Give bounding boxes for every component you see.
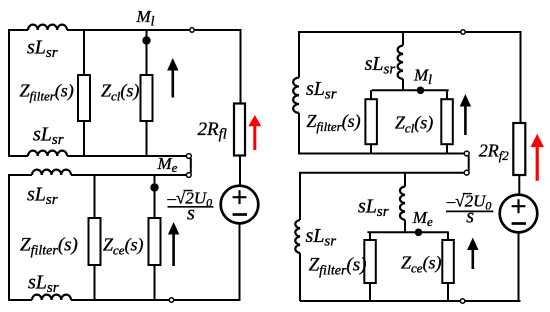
inductor sLsr bottom-right (left rail, vertical) bbox=[295, 220, 300, 253]
wire source right to bottom rail bbox=[518, 232, 520, 301]
svg-text:sLsr: sLsr bbox=[306, 225, 337, 250]
svg-text:Zfilter(s): Zfilter(s) bbox=[20, 235, 78, 259]
wire left rail of bottom-right circuit bbox=[299, 172, 301, 301]
wire 2Rf2 to source right bbox=[518, 175, 520, 195]
current arrow (red) 2Rf2 bbox=[531, 134, 544, 181]
wire bottom rail of top-left circuit bbox=[9, 155, 187, 157]
wire link between terminals (left) bbox=[190, 158, 192, 173]
inductor sLsr bottom-left (series, bottom rail) bbox=[32, 295, 71, 300]
node M_e (bottom-right junction dot) bbox=[415, 229, 423, 237]
wire right rail top-left to 2Rf1 bbox=[240, 29, 242, 104]
resistor 2Rf2 bbox=[513, 123, 525, 175]
inductor sLsr top-left (series, top rail) bbox=[28, 25, 67, 30]
svg-text:2Rfl: 2Rfl bbox=[198, 119, 227, 143]
wire middle branch bottom-right bbox=[404, 173, 406, 233]
terminal (open circle) on top rail right bbox=[461, 30, 465, 34]
resistor Zcl(s) top-right with leads bbox=[446, 90, 448, 153]
wire right rail to 2Rf2 bbox=[520, 31, 522, 123]
svg-text:sLsr: sLsr bbox=[358, 196, 389, 221]
inductor sLsr top-left (series, bottom rail) bbox=[28, 151, 67, 156]
wire source to bottom rail left bbox=[239, 223, 241, 300]
terminal (open circle) on top rail top-left bbox=[190, 28, 194, 32]
wire link between terminals (right) bbox=[468, 156, 470, 171]
svg-text:sLsr: sLsr bbox=[28, 272, 59, 297]
svg-text:Zce(s): Zce(s) bbox=[103, 235, 144, 258]
wire Zcl branch top-left bbox=[146, 30, 148, 156]
svg-text:s: s bbox=[187, 203, 195, 225]
wire left rail top-right bbox=[298, 31, 300, 155]
resistor Zce(s) bottom-left bbox=[149, 218, 161, 265]
resistor Zfilter(s) top-left with leads bbox=[83, 30, 85, 156]
terminal circle top rail bottom-left bbox=[186, 173, 191, 178]
svg-text:Ml: Ml bbox=[136, 7, 155, 30]
wire subcircuit rail bottom-right bbox=[367, 231, 448, 233]
resistor Zce(s) bottom-right with leads bbox=[447, 232, 449, 301]
wire 2Rf1 to source bbox=[239, 156, 241, 187]
svg-text:s: s bbox=[466, 206, 474, 228]
wire middle branch top-right bbox=[402, 32, 404, 90]
wire top rail of top-left circuit bbox=[9, 29, 241, 31]
current arrow (red) 2Rf1 bbox=[248, 115, 261, 150]
wire bottom rail of bottom-right circuit bbox=[300, 300, 521, 302]
inductor sLsr top-right (left rail, vertical) bbox=[293, 78, 299, 113]
svg-text:sLsr: sLsr bbox=[27, 184, 58, 209]
svg-text:Me: Me bbox=[157, 154, 178, 175]
resistor Zcl(s) top-left bbox=[141, 75, 153, 121]
svg-text:Zcl(s): Zcl(s) bbox=[395, 113, 433, 136]
resistor 2Rf1 bbox=[234, 104, 245, 156]
svg-text:Zcl(s): Zcl(s) bbox=[101, 81, 139, 104]
svg-text:Zfilter(s): Zfilter(s) bbox=[309, 255, 367, 279]
svg-text:Me: Me bbox=[412, 208, 433, 229]
terminal circle bus rail 2 right bbox=[464, 170, 469, 175]
current arrow (black) bottom-left bbox=[168, 222, 179, 266]
label source value right: -sqrt2 U0 over s bbox=[446, 192, 494, 228]
current arrow (black) bottom-right bbox=[467, 238, 478, 270]
current arrow (black) top-left bbox=[167, 58, 178, 98]
svg-text:sLsr: sLsr bbox=[365, 53, 396, 78]
wire top rail of bottom-left circuit bbox=[9, 174, 187, 176]
terminal circle bottom rail top-left bbox=[186, 154, 191, 159]
node M_l (top-right junction dot) bbox=[417, 87, 425, 95]
svg-text:Ml: Ml bbox=[413, 66, 432, 89]
wire left rail of bottom-left circuit bbox=[8, 174, 10, 301]
svg-text:Zfilter(s): Zfilter(s) bbox=[306, 111, 360, 134]
label source value left: -sqrt2 U0 over s bbox=[167, 189, 214, 225]
inductor sLsr bottom-left (series, top rail) bbox=[32, 170, 71, 175]
terminal (open circle) on bottom rail left bbox=[169, 298, 173, 302]
wire Zce branch bottom-left bbox=[154, 175, 156, 300]
terminal (open circle) on bottom rail right bbox=[460, 299, 464, 303]
node M_l (top-left junction dot) bbox=[142, 36, 150, 44]
node M_e (bottom-left junction dot) bbox=[150, 183, 158, 191]
wire bus rail 2 right bbox=[300, 172, 465, 174]
inductor sLsr bottom-right (middle, vertical) bbox=[400, 187, 405, 220]
resistor Zfilter(s) top-right with leads bbox=[370, 90, 372, 153]
resistor Zfilter(s) bottom-left with leads bbox=[94, 175, 96, 300]
current arrow (black) top-right bbox=[460, 94, 471, 135]
voltage source left bbox=[221, 186, 259, 224]
svg-text:2Rf2: 2Rf2 bbox=[479, 141, 510, 164]
wire bus rail 1 right bbox=[299, 153, 464, 155]
svg-text:Zfilter(s): Zfilter(s) bbox=[20, 81, 74, 104]
svg-text:sLsr: sLsr bbox=[27, 37, 58, 62]
svg-text:sLsr: sLsr bbox=[306, 78, 337, 103]
wire top rail of top-right circuit bbox=[299, 31, 521, 33]
svg-text:Zce(s): Zce(s) bbox=[401, 253, 442, 276]
svg-text:sLsr: sLsr bbox=[33, 124, 64, 149]
wire left rail of top-left circuit bbox=[8, 29, 10, 157]
wire bottom rail of bottom-left circuit bbox=[9, 299, 241, 301]
inductor sLsr top-right (middle, vertical) bbox=[398, 46, 403, 80]
voltage source right bbox=[500, 195, 538, 233]
wire subcircuit rail top-right bbox=[372, 89, 449, 91]
terminal circle bus rail 1 right bbox=[464, 151, 469, 156]
resistor Zfilter(s) bottom-right with leads bbox=[369, 232, 371, 301]
